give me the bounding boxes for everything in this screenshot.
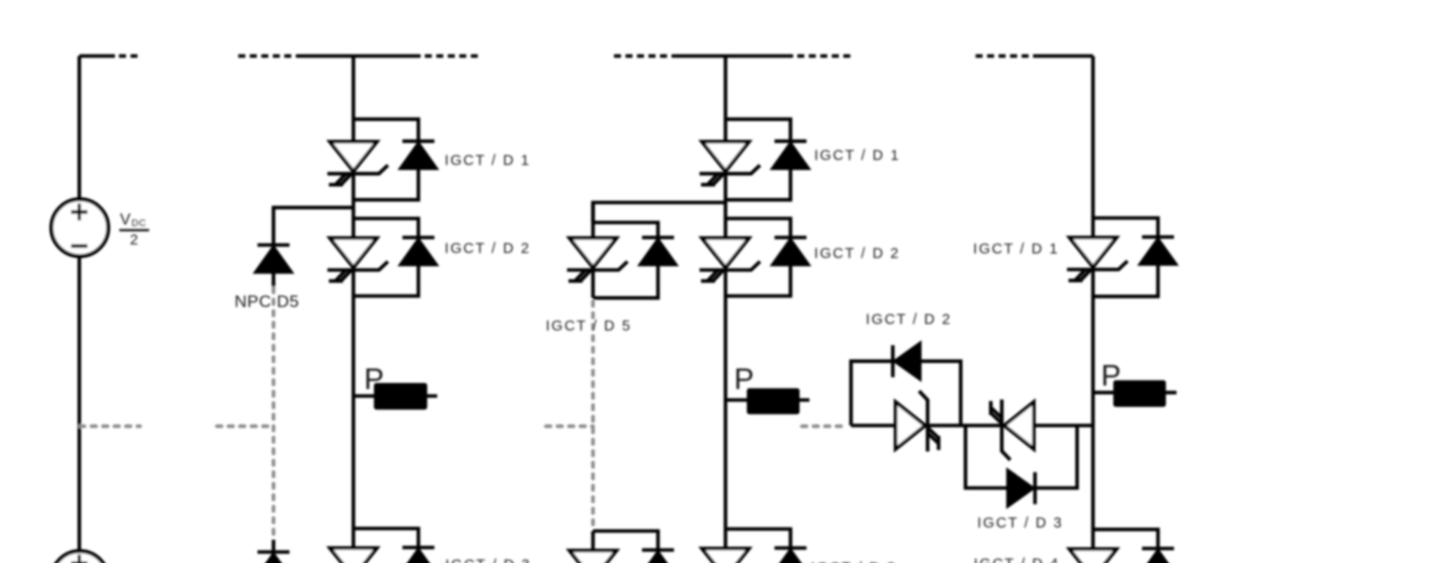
svg-text:2: 2 [130,232,138,248]
node label IGCT / D 5 (leg B) [546,318,632,334]
node label IGCT / D 2 (T-branch) [866,312,952,328]
node label IGCT / D 1 (leg C) [973,241,1059,257]
svg-text:P: P [364,363,384,396]
transistor leg A IGCT T1 [327,142,388,185]
svg-text:IGCT / D 3: IGCT / D 3 [445,557,531,563]
node label IGCT / D 2 (leg A) [445,241,531,257]
wire: dashed continuation of source top bus [119,54,138,58]
node label IGCT / D 1 (leg B) [814,148,900,164]
node P label leg C [1101,360,1121,393]
voltage source V1 plus sign [71,204,88,221]
wire: leg B clamp branch to IGCT/D5 [593,203,726,223]
transistor leg B IGCT T3 (clipped) [700,549,761,568]
wire: leg B lower clamp cell vertical [591,531,595,563]
wire: leg B IGCT/D2 parallel loop [726,219,791,297]
svg-text:IGCT / D 1: IGCT / D 1 [973,241,1059,257]
wire: leg C main vertical (x=1093) [1091,56,1095,563]
resistor: leg B phase terminal P box [747,388,800,414]
svg-text:IGCT / D 1: IGCT / D 1 [814,148,900,164]
svg-text:DC: DC [132,218,147,229]
transistor leg B IGCT T2 [700,238,761,281]
node: neutral point dashed link to leg C T-branch [802,424,845,428]
node label IGCT / D 4 (leg C, clipped) [974,557,1060,568]
wire: leg A main vertical (x=353) [352,56,356,563]
svg-text:IGCT / D 2: IGCT / D 2 [445,241,531,257]
wire: leg A clamp branch to NPC D5 [274,208,354,245]
wire: leg A top bus dashed right [425,54,478,58]
wire: leg B top bus dashed left [614,54,678,58]
wire: leg A IGCT/D1 parallel loop [353,119,418,200]
diode: T-branch D2 (points left) [893,343,921,380]
node P label leg A [364,363,384,396]
wire: leg B top bus dashed right [797,54,851,58]
svg-text:P: P [734,363,754,396]
svg-text:P: P [1101,360,1121,393]
diode: leg B lower clamp diode (clipped) [640,550,677,568]
svg-text:V: V [120,211,131,228]
resistor: leg A phase terminal P box [374,383,427,410]
wire: T-branch cell1 loop (left rail, top rail, right rail) [851,361,961,425]
voltage source V2 circle (clipped at bottom) [51,551,108,568]
transistor leg B clamp IGCT T5 [567,238,628,281]
svg-text:IGCT / D 2: IGCT / D 2 [814,246,900,262]
wire: DC source leg vertical (x=79) top bus to bottom [78,56,82,563]
wire: leg B phase output branch [726,398,810,402]
node: neutral point dashed link at source leg [80,424,140,428]
diode: leg A antiparallel D3 (clipped) [400,548,437,568]
transistor leg B IGCT T1 [700,142,761,185]
node label IGCT / D 3 (T-branch) [977,515,1063,531]
diode: NPC clamp D5 [255,245,292,273]
transistor leg A IGCT T2 [327,238,388,281]
transistor leg B lower clamp IGCT (clipped) [567,551,628,568]
wire: leg A clamp dashed vertical [272,288,276,540]
resistor: leg C phase terminal P box [1113,380,1166,407]
wire: leg A top bus solid [302,54,421,58]
label VDC/2 source value [119,211,149,248]
svg-text:IGCT / D 5: IGCT / D 5 [546,318,632,334]
diode: leg B antiparallel D2 [772,238,809,266]
node P label leg B [734,363,754,396]
voltage source V2 plus sign [71,555,88,564]
node label NPC D5 [235,292,300,311]
wire: leg A stub below NPC D5 [272,273,276,287]
node label IGCT / D 2 (leg B) [814,246,900,262]
svg-text:NPC D5: NPC D5 [235,292,300,311]
voltage source V1 minus sign [71,244,88,247]
wire: leg A stub above lower clamp diode D6 [272,540,276,552]
node: neutral point dashed link to leg B clamp [546,424,593,428]
wire: leg B clamp IGCT/D5 parallel loop [593,223,658,298]
wire: leg B clamp cell vertical [591,203,595,298]
diode: leg A antiparallel D2 [400,238,437,266]
transistor T-branch IGCT (points left) [991,400,1034,461]
wire: leg A IGCT/D2 parallel loop [353,219,418,297]
wire: leg C phase output branch [1093,391,1177,395]
node label IGCT / D 3 (leg B, clipped) [811,561,897,568]
svg-text:IGCT / D 2: IGCT / D 2 [866,312,952,328]
wire: DC source leg top corner to the right [79,54,115,58]
wire: leg C top bus solid corner [1033,54,1093,58]
diode: leg A antiparallel D1 [400,141,437,169]
diode: leg C antiparallel D1 [1140,237,1177,265]
diode: T-branch D3 (points right) [1008,470,1036,507]
wire: leg C IGCT/D4 parallel loop [1093,529,1158,563]
svg-text:IGCT / D 4: IGCT / D 4 [974,557,1060,564]
transistor leg C IGCT T1 [1067,238,1128,281]
svg-text:IGCT / D 1: IGCT / D 1 [445,153,531,169]
diode: NPC clamp D6 (clipped) [255,552,292,568]
diode: leg B antiparallel D1 [772,141,809,169]
diode: leg C antiparallel D4 (clipped) [1140,549,1177,568]
wire: T-branch cell2 loop (bottom) [966,426,1078,489]
node label IGCT / D 3 (leg A, clipped) [445,557,531,568]
wire: leg A IGCT/D3 parallel loop [353,529,418,564]
wire: leg B lower clamp parallel loop [593,531,658,563]
svg-text:IGCT / D 3: IGCT / D 3 [977,515,1063,531]
node: neutral point dashed link to leg A clamp [217,424,274,428]
wire: leg B IGCT/D3 parallel loop [726,529,791,563]
wire: leg C top bus dashed left [976,54,1033,58]
wire: leg A top bus dashed left [238,54,302,58]
wire: leg B clamp dashed vertical [591,302,595,530]
diode: leg B antiparallel D3 (clipped) [772,548,809,568]
node label IGCT / D 1 (leg A) [445,153,531,169]
wire: T-branch mid rail to leg C [851,424,1093,428]
diode: leg B clamp antiparallel D5 [640,238,677,266]
voltage source V1 circle [51,199,108,256]
transistor leg C IGCT T4 (clipped) [1067,549,1128,568]
transistor leg A IGCT T3 (clipped) [327,548,388,568]
wire: leg A phase output branch [353,394,437,398]
wire: leg B main vertical (x=725) [724,56,728,563]
wire: leg B top bus solid [678,54,794,58]
wire: leg B IGCT/D1 parallel loop [726,119,791,200]
wire: leg C IGCT/D1 parallel loop [1093,218,1158,296]
transistor T-branch IGCT (points right) [896,391,939,452]
